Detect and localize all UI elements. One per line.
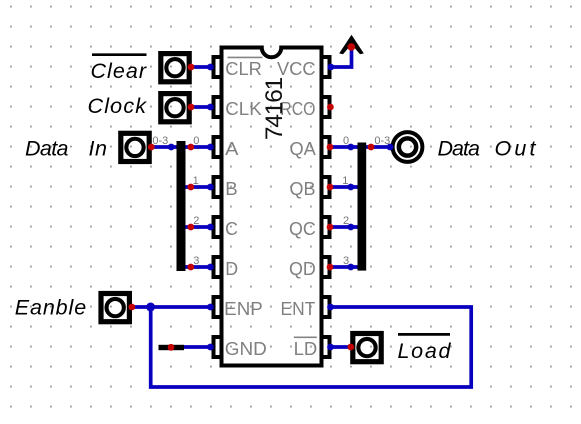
svg-text:3: 3 [193, 255, 199, 267]
svg-text:2: 2 [193, 215, 199, 227]
node at Data In button output [148, 144, 155, 151]
pin 6 D box [214, 257, 222, 277]
pin 8 GND box [214, 337, 222, 357]
node at QC pin [327, 224, 334, 231]
svg-text:ENP: ENP [224, 299, 263, 319]
pin 2 CLK box [214, 97, 222, 117]
node at LD pin [327, 344, 334, 351]
pin 3 A box [214, 137, 222, 157]
node at ENP pin [207, 304, 214, 311]
svg-text:D: D [225, 259, 238, 279]
wire QC pin to splitter S2 [330, 225, 358, 229]
wire ENP junction down, along bottom, up to ENT pin [151, 307, 472, 387]
wire QB pin to splitter S2 [330, 185, 358, 189]
node at power symbol [348, 43, 356, 51]
pin 10 ENT box [322, 297, 330, 317]
node at Clock button output [188, 104, 195, 111]
pin label ENT [281, 299, 316, 319]
pin 16 VCC box [322, 57, 330, 77]
node at RCO pin [327, 104, 334, 111]
node at VCC pin [327, 64, 334, 71]
value label 3 splitter S2 [343, 255, 349, 267]
pin label CLR overline [228, 56, 263, 58]
svg-text:GND: GND [225, 339, 267, 359]
button Eanble [101, 294, 129, 322]
label Load overline [398, 333, 450, 336]
svg-text:Load: Load [398, 339, 452, 363]
svg-text:Clock: Clock [88, 94, 148, 118]
value label 2 splitter S2 [343, 215, 349, 227]
svg-text:Out: Out [495, 137, 537, 161]
svg-text:C: C [225, 219, 238, 239]
node splitter S1 bit1 [187, 184, 194, 191]
node at splitter S2 bit0 [347, 144, 354, 151]
svg-text:0: 0 [343, 135, 349, 147]
node at splitter S2 bit1 [347, 184, 354, 191]
wire QD pin to splitter S2 [330, 265, 358, 269]
value label 2 splitter S1 [193, 215, 199, 227]
pin 12 QC box [322, 217, 330, 237]
svg-text:0-3: 0-3 [152, 135, 168, 147]
svg-text:0-3: 0-3 [374, 135, 390, 147]
pin label D [225, 259, 238, 279]
button Data In [121, 133, 149, 161]
value label 1 splitter S1 [193, 175, 199, 187]
svg-text:CLK: CLK [225, 99, 261, 119]
node at splitter S2 bit2 [347, 224, 354, 231]
pin label QA [290, 139, 317, 159]
pin label B [225, 179, 237, 199]
svg-text:3: 3 [343, 255, 349, 267]
svg-text:A: A [225, 139, 239, 159]
wire QA pin to splitter S2 [330, 145, 358, 149]
node at Clear button output [188, 64, 195, 71]
pin label CLR [225, 59, 262, 79]
svg-text:Data: Data [25, 136, 69, 160]
pin label CLK [225, 99, 261, 119]
svg-text:QB: QB [290, 179, 316, 199]
label Eanble [15, 296, 87, 320]
node at Load button input [347, 344, 354, 351]
node splitter S2 output [368, 144, 375, 151]
label Load [398, 339, 452, 363]
pin label RCO [280, 99, 315, 119]
pin 9 LD box [322, 337, 330, 357]
button Clock [161, 94, 189, 122]
wire from ground constant to GND pin [183, 345, 211, 349]
svg-text:0: 0 [193, 135, 199, 147]
svg-text:VCC: VCC [277, 59, 316, 79]
node at splitter S2 bit3 [347, 264, 354, 271]
svg-text:1: 1 [193, 175, 199, 187]
pin label LD [294, 339, 318, 359]
wire from Eanble button to ENP pin [131, 305, 210, 309]
label Clock [88, 94, 148, 118]
svg-text:Clear: Clear [91, 59, 147, 83]
pin 13 QB box [322, 177, 330, 197]
pin label C [225, 219, 238, 239]
node at ENT pin [327, 304, 334, 311]
svg-text:1: 1 [342, 175, 348, 187]
power VCC symbol [339, 35, 364, 55]
label Data Out [438, 137, 537, 161]
output indicator Data Out [393, 132, 423, 162]
node splitter S1 bit3 [187, 264, 194, 271]
label Data In [25, 136, 107, 160]
wire from LD pin to Load button [330, 345, 351, 349]
node at CLK pin [207, 104, 214, 111]
wire from Clear button to CLR pin [191, 65, 212, 69]
pin label QD [289, 259, 316, 279]
node splitter S1 bit2 [187, 224, 194, 231]
pin 11 QD box [322, 257, 330, 277]
button Clear [161, 54, 189, 82]
wire from VCC pin to power symbol [330, 47, 352, 67]
node at Data Out input [387, 144, 394, 151]
value label 1 splitter S2 [342, 175, 348, 187]
svg-text:2: 2 [343, 215, 349, 227]
splitter S1 (Data In 0-3 bus bar) [177, 141, 186, 271]
value label 0-3 splitter S2 [374, 135, 390, 147]
pin 4 B box [214, 177, 222, 197]
node at QA pin [327, 144, 334, 151]
IC U1 74161 body [222, 48, 322, 366]
svg-text:QA: QA [290, 139, 317, 159]
IC U1 part number 74161 [261, 77, 288, 140]
pin label VCC [277, 59, 316, 79]
wire splitter S1 bit1 to pin B [185, 185, 211, 189]
value label 0 splitter S2 [343, 135, 349, 147]
svg-text:CLR: CLR [225, 59, 262, 79]
wire splitter S1 bit0 to pin A [185, 145, 211, 149]
label Clear overline [92, 53, 147, 56]
ground constant component [159, 345, 185, 350]
node on ground constant [168, 344, 175, 351]
label Clear [91, 59, 147, 83]
pin 7 ENP box [214, 297, 222, 317]
svg-text:In: In [89, 136, 108, 160]
pin label QB [290, 179, 316, 199]
svg-text:LD: LD [294, 339, 318, 359]
wire from Clock button to CLK pin [191, 105, 212, 109]
pin label GND [225, 339, 267, 359]
node at QB pin [327, 184, 334, 191]
svg-text:QD: QD [289, 259, 316, 279]
svg-text:Eanble: Eanble [15, 296, 87, 320]
wire splitter S1 bit3 to pin D [185, 265, 211, 269]
node at splitter S1 input [168, 144, 175, 151]
pin label LD overline [294, 336, 317, 338]
wire from Data In button to splitter S1 [151, 145, 177, 149]
button Load [353, 334, 381, 362]
pin 15 RCO box [322, 97, 330, 117]
pin label A [225, 139, 239, 159]
svg-text:ENT: ENT [281, 299, 316, 319]
node at GND pin [207, 344, 214, 351]
value label 0 splitter S1 [193, 135, 199, 147]
value label 0-3 splitter S1 [152, 135, 168, 147]
node at CLR pin [207, 64, 214, 71]
node at B pin [207, 184, 214, 191]
node at C pin [207, 224, 214, 231]
node at A pin [207, 144, 214, 151]
pin label QC [289, 219, 316, 239]
svg-text:Data: Data [438, 137, 481, 161]
wire splitter S1 bit2 to pin C [185, 225, 211, 229]
pin 14 QA box [322, 137, 330, 157]
node at D pin [207, 264, 214, 271]
pin 5 C box [214, 217, 222, 237]
node at Eanble button output [128, 304, 135, 311]
node at QD pin [327, 264, 334, 271]
wire splitter S2 to Data Out pin [366, 145, 390, 149]
node splitter S1 bit0 [187, 144, 194, 151]
pin label ENP [224, 299, 263, 319]
svg-text:74161: 74161 [261, 77, 288, 140]
value label 3 splitter S1 [193, 255, 199, 267]
pin 1 CLR box [214, 57, 222, 77]
splitter S2 (Data Out 0-3 bus bar) [358, 143, 367, 271]
svg-text:QC: QC [289, 219, 316, 239]
junction node ENP wire [146, 303, 155, 312]
svg-text:B: B [225, 179, 237, 199]
